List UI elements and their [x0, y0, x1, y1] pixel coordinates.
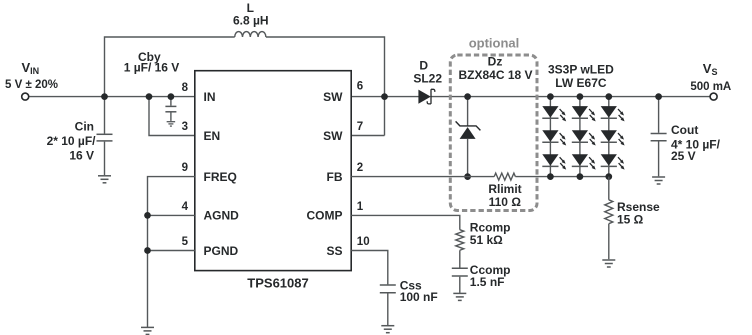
node: LED col 3 bottom — [605, 173, 612, 180]
node: input junction — [101, 93, 108, 100]
svg-text:Cin: Cin — [75, 120, 94, 134]
diode D SL22 schottky — [418, 90, 430, 104]
optional dashed box — [450, 55, 537, 211]
svg-text:SW: SW — [323, 90, 343, 104]
LED D4 (col 2 row 1) — [572, 106, 588, 118]
zener diode Dz BZX84C vertical — [467, 97, 469, 126]
node: LED col 2 top — [577, 93, 584, 100]
LED D7 (col 3 row 1) — [601, 106, 617, 118]
svg-text:VS: VS — [703, 61, 718, 77]
node: EN branch junction — [146, 93, 153, 100]
svg-text:SS: SS — [326, 244, 342, 258]
ground (Ccomp) — [453, 292, 466, 294]
LED D5 (col 2 row 2) — [572, 130, 588, 142]
svg-text:6: 6 — [357, 80, 363, 92]
wire: boost loop up-over through inductor — [105, 37, 235, 97]
svg-text:10: 10 — [357, 236, 370, 248]
wire: FREQ to left vertical — [148, 177, 195, 327]
svg-text:Cout: Cout — [671, 123, 698, 137]
svg-text:7: 7 — [357, 121, 363, 133]
svg-text:2* 10 µF/: 2* 10 µF/ — [47, 134, 97, 148]
wire: LED string column 1 — [549, 97, 551, 177]
resistor Rcomp 51k — [456, 230, 464, 251]
svg-text:SW: SW — [323, 129, 343, 143]
svg-text:AGND: AGND — [204, 209, 240, 223]
svg-text:15 Ω: 15 Ω — [617, 212, 644, 226]
svg-text:Dz: Dz — [488, 54, 503, 68]
svg-text:D: D — [419, 59, 428, 73]
svg-text:16 V: 16 V — [69, 148, 94, 162]
wire: FB rail — [351, 176, 494, 178]
svg-text:5: 5 — [182, 236, 189, 248]
node: SW junction — [381, 93, 388, 100]
svg-text:FREQ: FREQ — [204, 170, 237, 184]
ground (Cin) — [98, 175, 111, 177]
svg-text:Rlimit: Rlimit — [488, 182, 521, 196]
node: AGND junction — [144, 212, 151, 219]
LED D9 (col 3 row 3) — [601, 154, 617, 166]
wire: LED string column 3 — [608, 97, 610, 177]
ground (Rsense) — [602, 259, 615, 261]
resistor Rlimit 110ohm — [494, 173, 515, 180]
svg-text:TPS61087: TPS61087 — [247, 276, 308, 291]
svg-text:500 mA: 500 mA — [690, 81, 731, 93]
svg-text:BZX84C 18 V: BZX84C 18 V — [458, 68, 532, 82]
inductor L 6.8uH — [235, 32, 266, 37]
svg-text:51 kΩ: 51 kΩ — [470, 233, 503, 247]
svg-text:6.8 µH: 6.8 µH — [233, 14, 269, 28]
LED D8 (col 3 row 2) — [601, 130, 617, 142]
capacitor Cout 4x10uF/25V — [658, 97, 660, 133]
svg-text:3: 3 — [182, 121, 188, 133]
LED D1 (col 1 row 1) — [542, 106, 558, 118]
wire: EN branch from input rail — [149, 97, 195, 136]
svg-text:4: 4 — [182, 201, 189, 213]
svg-text:100 nF: 100 nF — [400, 290, 438, 304]
svg-text:FB: FB — [327, 170, 343, 184]
svg-text:COMP: COMP — [307, 209, 343, 223]
wire: main input rail VIN to diode anode — [29, 96, 419, 98]
capacitor Ccomp 1.5nF — [459, 250, 461, 267]
ground (Cby, small) — [167, 121, 176, 123]
svg-text:IN: IN — [204, 90, 216, 104]
node: LED col 1 top — [547, 93, 554, 100]
wire: SS to Css — [351, 251, 388, 285]
wire: COMP to Rcomp — [351, 215, 460, 229]
svg-text:VIN: VIN — [22, 60, 40, 76]
svg-text:3S3P wLED: 3S3P wLED — [548, 62, 614, 76]
svg-text:LW E67C: LW E67C — [555, 76, 607, 90]
svg-text:9: 9 — [182, 162, 188, 174]
wire: SW pin 7 — [351, 135, 384, 137]
terminal VS — [710, 93, 717, 100]
svg-text:optional: optional — [469, 35, 520, 50]
svg-text:1 µF/ 16 V: 1 µF/ 16 V — [124, 60, 180, 74]
wire: PGND — [148, 250, 195, 252]
capacitor Cin 2x10uF/16V — [104, 97, 106, 134]
wire: LED string column 2 — [579, 97, 581, 177]
LED D2 (col 1 row 2) — [542, 130, 558, 142]
resistor Rsense 15ohm — [605, 200, 613, 224]
ground (left rail) — [141, 326, 154, 328]
node: Cby junction — [168, 93, 175, 100]
svg-text:110 Ω: 110 Ω — [489, 195, 522, 209]
wire: Rlimit to LED bottom rail — [515, 176, 608, 178]
svg-text:8: 8 — [182, 82, 189, 94]
LED D3 (col 1 row 3) — [542, 154, 558, 166]
wire: output rail diode cathode to VS terminal — [431, 96, 710, 98]
svg-text:2: 2 — [357, 162, 363, 174]
node: LED col 2 bottom — [577, 173, 584, 180]
node: Cout junction — [655, 93, 662, 100]
op IC U1 TPS61087 body — [195, 71, 351, 271]
node: LED col 3 top — [605, 93, 612, 100]
LED D6 (col 2 row 3) — [572, 154, 588, 166]
terminal VIN — [22, 93, 29, 100]
wire: inductor to SW node — [266, 37, 385, 136]
svg-text:1.5 nF: 1.5 nF — [470, 275, 505, 289]
capacitor Css 100nF — [387, 283, 389, 285]
node: LED col 1 bottom — [547, 173, 554, 180]
node: zener bottom / FB — [464, 173, 471, 180]
node: PGND junction — [144, 247, 151, 254]
capacitor Cby 1uF/16V — [170, 97, 172, 106]
node: zener top — [464, 93, 471, 100]
svg-text:25 V: 25 V — [671, 149, 696, 163]
ground (Cout) — [652, 176, 665, 178]
svg-text:5 V ± 20%: 5 V ± 20% — [5, 79, 58, 91]
svg-text:1: 1 — [357, 201, 364, 213]
svg-text:PGND: PGND — [204, 244, 239, 258]
wire: Rsense leads — [608, 177, 610, 200]
svg-text:EN: EN — [204, 129, 221, 143]
wire: AGND — [148, 214, 195, 216]
ground (Css) — [381, 325, 394, 327]
svg-text:SL22: SL22 — [413, 72, 442, 86]
